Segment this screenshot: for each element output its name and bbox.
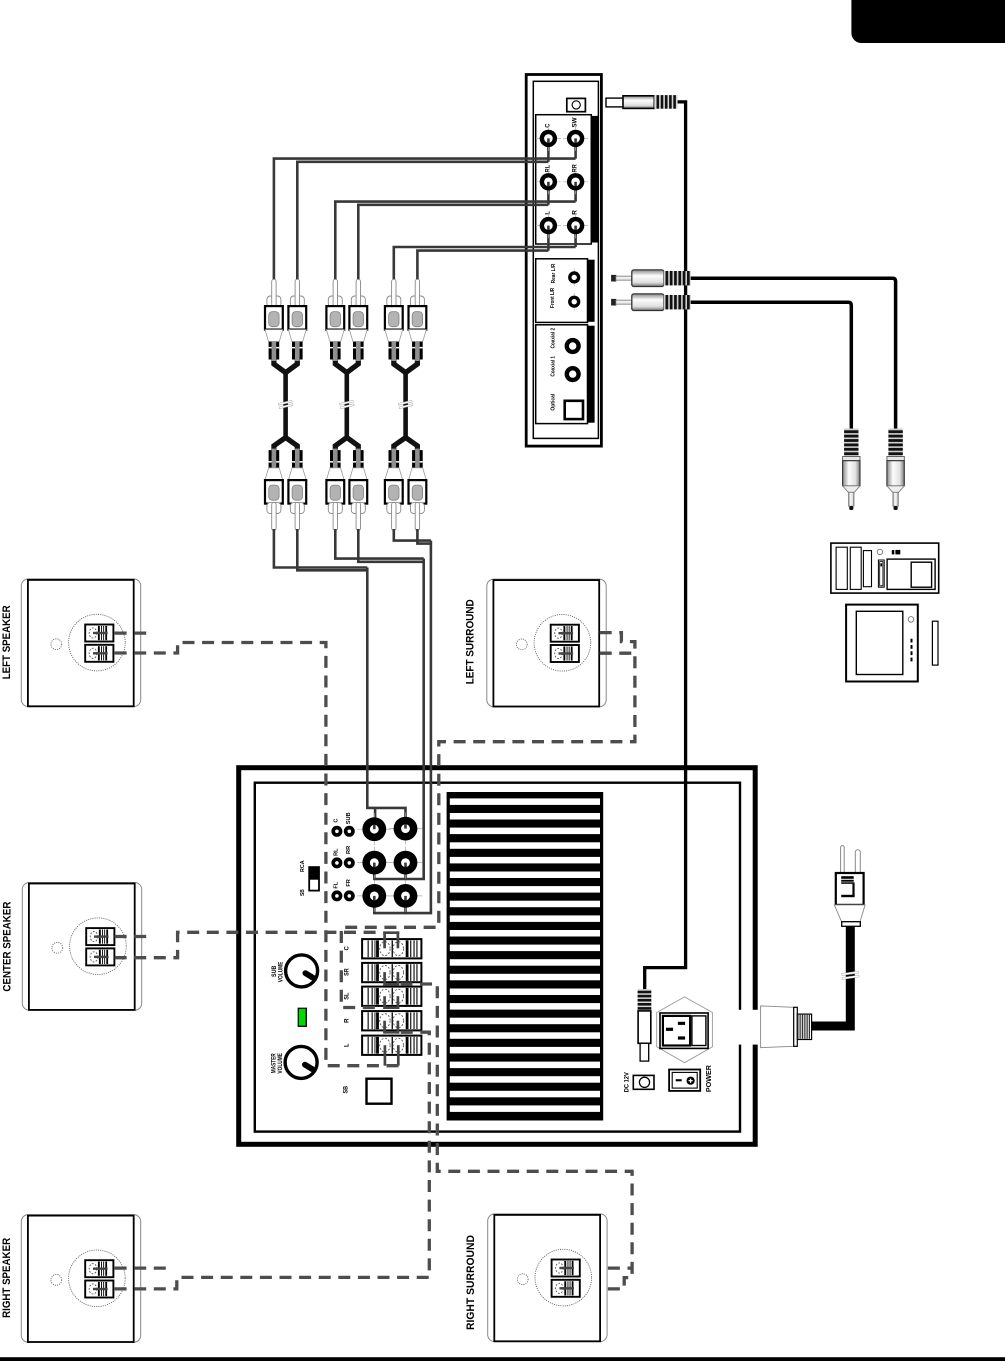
terminal row SL — [343, 987, 421, 1006]
input jack FR — [389, 880, 423, 912]
panel section: Coaxial/Optical inputs — [536, 325, 595, 424]
terminal row L — [343, 1036, 421, 1055]
DC plug at decoder — [606, 95, 678, 109]
label Optical — [551, 393, 557, 410]
svg-text:SUB: SUB — [346, 812, 352, 824]
label Rear L/R — [551, 264, 557, 284]
svg-text:DC 12V: DC 12V — [625, 1072, 631, 1092]
cord grommet — [797, 1014, 811, 1039]
speaker RIGHT SURROUND — [488, 1214, 607, 1342]
dashed wire LEFT SPEAKER to L — [115, 633, 400, 1066]
svg-text:POWER: POWER — [704, 1064, 713, 1092]
terminal row R — [343, 1011, 421, 1030]
RCA/SB slide switch — [309, 867, 319, 891]
knob SUB VOLUME — [286, 955, 318, 987]
svg-text:SR: SR — [343, 968, 350, 976]
minijack plug into Rear L/R — [611, 270, 691, 287]
dashed wire RIGHT SURROUND to SR — [401, 984, 633, 1289]
wire pair2 to RL/RR jacks — [335, 529, 423, 880]
wire feed C to pair1 — [297, 162, 548, 280]
input jack FL — [357, 880, 391, 912]
staple L row — [385, 1045, 398, 1066]
AC inlet — [660, 1013, 708, 1048]
coaxial jack 1 — [565, 366, 581, 382]
RCA Y-cable pair 1 (C/SW) — [265, 279, 306, 530]
svg-text:CENTER SPEAKER: CENTER SPEAKER — [1, 902, 13, 992]
knob MASTER VOLUME — [285, 1046, 317, 1078]
label jack L — [545, 211, 552, 215]
RCA Y-cable pair 3 (L/R) — [385, 279, 426, 530]
svg-text:RR: RR — [572, 164, 579, 172]
svg-text:Front L/R: Front L/R — [550, 288, 556, 308]
svg-text:C: C — [343, 946, 350, 951]
wire feed L to pair3 — [417, 251, 548, 280]
monitor device — [846, 605, 918, 682]
AC cable — [812, 926, 851, 1026]
staple R row — [383, 1021, 399, 1034]
subwoofer rear panel — [239, 768, 756, 1145]
svg-text:SB: SB — [343, 1086, 350, 1094]
label DC 12V — [625, 1072, 631, 1092]
side strip — [932, 621, 938, 665]
minijack input Front L/R — [568, 293, 580, 311]
label jack RL — [545, 165, 552, 172]
AC cord pass-through — [734, 1010, 770, 1045]
rocker switch POWER — [669, 1070, 700, 1091]
svg-text:RL: RL — [545, 165, 552, 172]
heatsink — [447, 792, 604, 1121]
wire pair3 to FL/FR jacks — [374, 529, 431, 914]
svg-text:RL: RL — [333, 848, 339, 856]
DC 12V input jack — [633, 1075, 654, 1089]
staple SL row — [383, 996, 399, 1009]
staple C row — [383, 931, 399, 948]
svg-text:SL: SL — [343, 992, 350, 999]
terminal row SR — [343, 963, 421, 982]
speaker LEFT SPEAKER — [21, 579, 140, 707]
decoder panel outline — [526, 75, 601, 447]
label jack RR — [572, 164, 579, 172]
coaxial jack 2 — [565, 338, 581, 354]
label Coaxial 1 — [551, 356, 557, 377]
label Coaxial 2 — [551, 328, 557, 349]
svg-text:Coaxial 2: Coaxial 2 — [551, 328, 557, 349]
input jack RR — [389, 847, 423, 879]
marker C — [331, 819, 342, 837]
dashed wire LEFT SURROUND to SL — [341, 633, 635, 1008]
label SUB VOLUME — [271, 962, 284, 983]
minijack plug loose (front) — [843, 429, 860, 511]
svg-text:C: C — [333, 819, 339, 823]
input jack SUB — [389, 813, 423, 845]
svg-text:L: L — [343, 1043, 350, 1047]
staple SR row — [383, 972, 399, 986]
wall plug — [834, 846, 865, 927]
label jack SW — [572, 117, 579, 128]
RCA output jack RL — [536, 169, 561, 194]
marker SUB — [344, 812, 355, 836]
terminal row C — [343, 939, 421, 958]
label POWER — [704, 1064, 713, 1092]
wire feed RL to pair2 — [358, 205, 548, 280]
label jack C — [545, 123, 552, 128]
svg-text:RCA: RCA — [300, 860, 306, 872]
strain relief boot — [761, 1006, 798, 1048]
minijack cable Front — [688, 302, 851, 429]
label LEFT SPEAKER — [1, 605, 13, 679]
black header block — [851, 0, 1005, 43]
wire feed SW to pair1 — [274, 159, 576, 280]
page footer rule — [0, 1357, 1005, 1361]
svg-text:Coaxial 1: Coaxial 1 — [551, 356, 557, 377]
minijack cable Rear — [688, 278, 896, 429]
DC cable — [645, 102, 686, 990]
svg-text:Rear L/R: Rear L/R — [551, 264, 557, 284]
sound card bracket — [831, 543, 939, 593]
speaker CENTER SPEAKER — [22, 883, 141, 1011]
label MASTER VOLUME — [271, 1053, 284, 1074]
RCA Y-cable pair 2 (RL/RR) — [326, 279, 367, 530]
DC plug at sub — [638, 989, 652, 1061]
panel section: Rear/Front minijack inputs — [536, 259, 595, 323]
optical jack — [565, 401, 583, 419]
marker FL — [331, 881, 342, 901]
SB jack square — [367, 1079, 392, 1104]
svg-text:RR: RR — [346, 846, 352, 854]
minijack input Rear L/R — [568, 268, 580, 286]
minijack plug into Front L/R — [611, 294, 691, 311]
label RIGHT SPEAKER — [1, 1238, 13, 1318]
marker FR — [344, 879, 355, 901]
label LEFT SURROUND — [465, 599, 477, 684]
marker RR — [344, 846, 355, 869]
svg-text:LEFT SURROUND: LEFT SURROUND — [465, 599, 477, 684]
wire feed RR to pair2 — [335, 202, 575, 280]
svg-text:RIGHT SPEAKER: RIGHT SPEAKER — [1, 1238, 13, 1318]
svg-text:RIGHT SURROUND: RIGHT SURROUND — [465, 1235, 477, 1330]
dashed wire RIGHT SPEAKER to R — [115, 1032, 430, 1289]
DC output jack — [567, 98, 586, 111]
label CENTER SPEAKER — [1, 902, 13, 992]
speaker RIGHT SPEAKER — [21, 1215, 140, 1343]
svg-text:LEFT SPEAKER: LEFT SPEAKER — [1, 605, 13, 679]
label RCA — [300, 860, 306, 872]
label RIGHT SURROUND — [465, 1235, 477, 1330]
svg-text:SB: SB — [300, 889, 306, 896]
svg-text:L: L — [545, 211, 552, 215]
RCA output jack RR — [563, 169, 588, 194]
dashed wire CENTER SPEAKER to C — [115, 932, 381, 957]
speaker LEFT SURROUND — [487, 579, 606, 707]
svg-text:C: C — [545, 123, 552, 128]
RCA output jack SW — [563, 126, 588, 151]
wire feed R to pair3 — [394, 247, 576, 280]
AC inlet bezel — [657, 997, 713, 1063]
svg-text:FR: FR — [346, 879, 352, 886]
label SB — [300, 889, 306, 896]
label jack R — [572, 210, 579, 215]
svg-text:FL: FL — [333, 881, 339, 888]
wire pair1 to C/SUB jacks — [274, 529, 406, 829]
minijack plug loose (rear) — [887, 429, 904, 511]
RCA output jack C — [536, 126, 561, 151]
power LED — [298, 1008, 306, 1026]
input jack RL — [357, 847, 391, 879]
panel section: 5.1 RCA outputs — [536, 115, 598, 244]
marker RL — [331, 848, 342, 869]
svg-text:SW: SW — [572, 117, 579, 128]
input jack C — [357, 813, 391, 845]
svg-text:R: R — [343, 1018, 350, 1023]
svg-text:VOLUME: VOLUME — [277, 962, 284, 983]
svg-text:VOLUME: VOLUME — [277, 1053, 284, 1074]
label SB — [343, 1086, 350, 1094]
RCA output jack R — [563, 213, 588, 238]
svg-text:Optical: Optical — [551, 393, 557, 410]
RCA output jack L — [536, 213, 561, 238]
cable cut mark — [841, 971, 859, 979]
svg-text:R: R — [572, 210, 579, 215]
wire jack stems C/SW/RL/RR/L/R — [548, 138, 575, 250]
label Front L/R — [550, 288, 556, 308]
